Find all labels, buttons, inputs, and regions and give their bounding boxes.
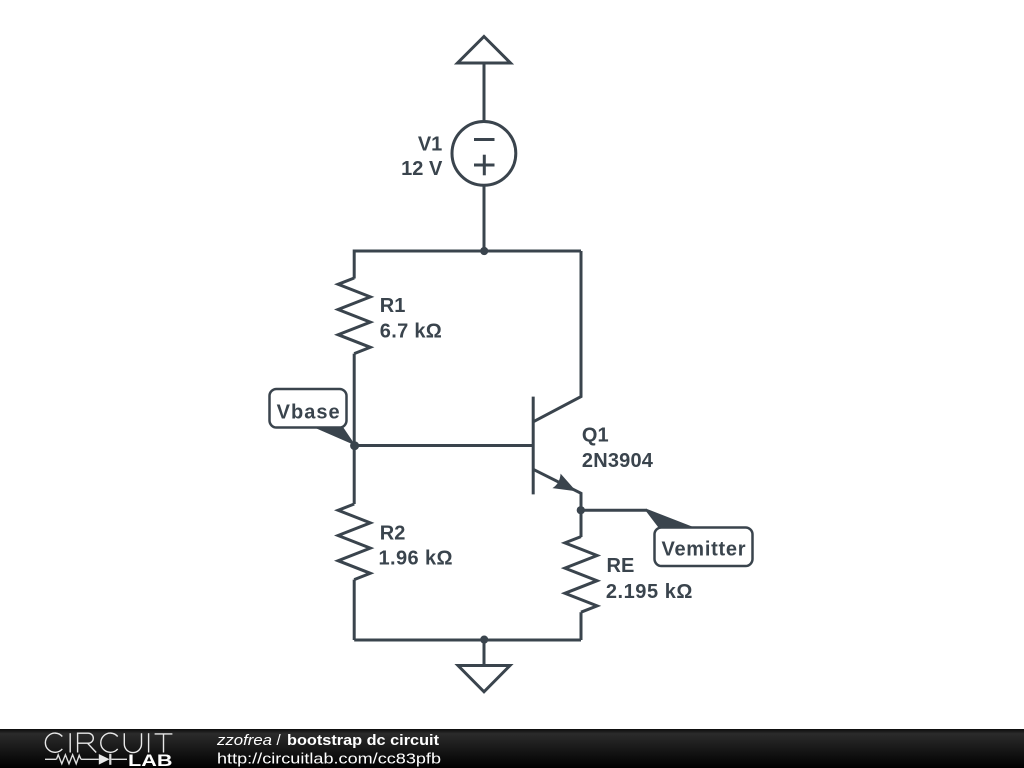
svg-text:bootstrap dc circuit: bootstrap dc circuit: [287, 732, 439, 749]
wire V1 to top rail: [483, 186, 486, 252]
node flag Vemitter: [646, 509, 752, 566]
svg-text:http://circuitlab.com/cc83pfb: http://circuitlab.com/cc83pfb: [217, 751, 441, 768]
transistor Q1: [533, 251, 581, 510]
svg-text:LAB: LAB: [128, 751, 173, 768]
wire base: [354, 444, 533, 447]
wire RE to bottom rail: [580, 612, 583, 640]
voltage source V1: [452, 121, 516, 185]
V1 value label: [401, 133, 443, 180]
wire emitter node to RE: [580, 510, 583, 537]
svg-text:Q1: Q1: [582, 424, 609, 446]
power flag V+ arrow: [458, 37, 511, 122]
resistor R1: [338, 278, 370, 354]
R2 value label: [379, 523, 453, 570]
svg-text:1.96 kΩ: 1.96 kΩ: [379, 548, 453, 570]
resistor R2: [338, 504, 370, 580]
svg-text:Vbase: Vbase: [277, 402, 340, 424]
node flag Vbase: [270, 389, 356, 446]
CircuitLab logo CIRCUIT: [45, 733, 172, 752]
wire top rail: [354, 250, 581, 253]
Q1 value label: [582, 424, 654, 471]
resistor RE: [565, 537, 597, 613]
R1 value label: [380, 295, 442, 342]
svg-text:6.7 kΩ: 6.7 kΩ: [380, 320, 442, 342]
wire R1 to Vbase node: [353, 354, 356, 446]
wire top rail to R1: [353, 250, 356, 279]
svg-text:2N3904: 2N3904: [582, 450, 654, 472]
svg-text:zzofrea: zzofrea: [216, 732, 272, 749]
svg-text:V1: V1: [418, 133, 442, 155]
svg-text:RE: RE: [607, 555, 635, 577]
junction dot top rail: [480, 247, 488, 255]
svg-text:R2: R2: [380, 523, 406, 545]
junction dot Vbase node: [350, 441, 359, 450]
wire R2 to bottom rail: [353, 580, 356, 640]
RE value label: [606, 555, 693, 603]
wire bottom rail: [354, 639, 581, 642]
svg-text:2.195 kΩ: 2.195 kΩ: [606, 581, 693, 603]
watermark title text: [216, 732, 439, 749]
wire emitter node to Vemitter flag: [581, 509, 647, 512]
watermark bar: [0, 729, 1024, 768]
junction dot bottom rail: [480, 636, 488, 644]
ground: [458, 640, 510, 692]
svg-text:Vemitter: Vemitter: [662, 539, 746, 561]
wire R2 to Vbase node: [353, 446, 356, 505]
svg-text:R1: R1: [380, 295, 406, 317]
CircuitLab logo resistor-diode icon: [45, 754, 127, 765]
junction dot emitter node: [577, 506, 585, 514]
svg-text:12 V: 12 V: [401, 158, 443, 180]
